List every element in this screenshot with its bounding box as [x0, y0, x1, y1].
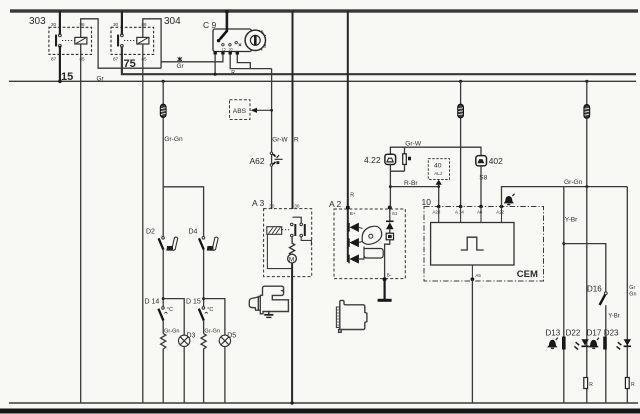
lamp D5 [219, 333, 236, 347]
relay 303 [29, 16, 92, 62]
svg-text:A 2: A 2 [329, 199, 342, 209]
wire branch to lamp D3 [163, 299, 184, 336]
node: D3 lamp branch [162, 297, 165, 300]
relay 303 coil [75, 37, 87, 44]
svg-text:303: 303 [29, 16, 46, 27]
svg-text:Gr: Gr [177, 63, 185, 70]
wire A22 up and Gr-Gn run to right [502, 187, 628, 207]
wire D3 to ground bus [183, 347, 185, 404]
resistor B (parallel with 422) [403, 147, 411, 171]
wire CEM A5 to ground bus [471, 279, 473, 403]
svg-text:402: 402 [489, 156, 503, 166]
seat icon D4 [207, 237, 218, 250]
svg-text:30: 30 [269, 204, 275, 209]
svg-text:D 14: D 14 [145, 299, 160, 306]
svg-text:D22: D22 [566, 328, 581, 337]
svg-text:M: M [289, 256, 294, 263]
C9 contact studs [222, 41, 242, 46]
svg-text:15: 15 [222, 47, 226, 51]
node: Gr-Gn wire on bus 15 [162, 80, 165, 83]
bus 30 (top power rail) [10, 9, 638, 12]
node: A2 B- pin [383, 277, 387, 281]
wire from bus 15 to CEM A14 [460, 81, 462, 206]
ignition switch C9 [203, 20, 252, 52]
wire C9 pin1 to bus 75 [214, 55, 216, 75]
wire mark W on C9 pin2 net [178, 57, 183, 62]
wire branch to D16 [564, 244, 606, 292]
switch D4 (heated seat) [189, 229, 205, 250]
resistor (below D15) [201, 334, 206, 404]
svg-text:D3: D3 [187, 333, 196, 340]
svg-text:30: 30 [229, 47, 233, 51]
node: right fuse wire on bus 15 [585, 80, 588, 83]
arrow to ABS (from Gr-W wire) [251, 108, 273, 113]
A2 stator diodes (3x) [349, 223, 359, 263]
alternator A2 [329, 199, 405, 279]
thermal switch D14 [145, 299, 173, 321]
svg-text:A28: A28 [433, 210, 441, 215]
svg-text:A6: A6 [477, 210, 483, 215]
bottom border bar [0, 409, 640, 414]
relay module A3 [252, 198, 312, 277]
svg-text:D16: D16 [587, 285, 602, 294]
wire D23 column (x=627.3) [626, 187, 628, 403]
fuse (middle, A14 wire) [458, 104, 464, 118]
svg-text:D2: D2 [146, 229, 155, 236]
node: D5 lamp branch [202, 297, 205, 300]
wire branch to lamp D5 [204, 299, 225, 336]
resistor R (D22 column) [584, 378, 594, 389]
wire D4 to D15 junction [203, 250, 205, 307]
wire branch to D4 [163, 187, 203, 236]
node: A2 pin 61 [388, 206, 392, 210]
svg-text:°C: °C [167, 307, 173, 313]
svg-text:Gr: Gr [629, 285, 635, 291]
starter ground [264, 312, 273, 318]
svg-text:D4: D4 [189, 229, 198, 236]
wire Gr-W / R down to A62 and A3 (x=271.6) [271, 69, 273, 209]
svg-text:D23: D23 [604, 328, 619, 337]
CEM inner block [431, 223, 514, 266]
svg-text:40: 40 [434, 163, 442, 170]
wire D13 column (x=563.8) [563, 187, 565, 403]
A2 B- wire [385, 240, 390, 279]
svg-text:R: R [631, 382, 635, 388]
svg-text:304: 304 [164, 16, 181, 27]
unit 40 box [428, 159, 449, 180]
chime D17 [589, 337, 607, 350]
A3 resistor [290, 237, 295, 255]
svg-text:A62: A62 [250, 156, 265, 166]
wire D14 to resistor [162, 321, 164, 334]
relay 303 pin 86 loop wire to C9 net [81, 19, 161, 68]
bus 75 [122, 46, 636, 74]
svg-text:15: 15 [61, 71, 73, 83]
connector 422 [364, 154, 396, 165]
LED D22 [574, 339, 588, 349]
C9 key cylinder [245, 30, 266, 50]
relay 304 pin 86 loop wire [143, 19, 161, 68]
svg-text:Gr-W: Gr-W [272, 136, 288, 143]
svg-text:Y-Br: Y-Br [608, 314, 619, 320]
connector 402 [476, 156, 503, 166]
ABS control unit box [230, 100, 251, 120]
switch D16 [587, 285, 607, 306]
wiper/heater motor outline (below A2) [336, 300, 367, 332]
relay 304 pin 30 wire (from bus 30) [121, 11, 123, 35]
node: C9 pin1 on bus 75 [214, 73, 217, 76]
wire right column from bus 15 through fuse [586, 81, 588, 186]
wire C9 pin3 (R tap) [230, 55, 271, 69]
svg-text:B-: B- [387, 273, 392, 278]
fuse (right) [584, 105, 590, 119]
relay 304 contact [117, 34, 123, 47]
CEM pin A28 [437, 205, 441, 209]
CEM pin A5 [471, 265, 473, 279]
C9 supply wire from bus 30 [226, 11, 229, 31]
node: R-Br junction at 422 column [389, 185, 392, 188]
A3 branch to second contact [293, 217, 302, 223]
ground bus (bottom thin) [9, 402, 638, 404]
svg-text:°C: °C [207, 307, 213, 313]
svg-text:R: R [350, 193, 354, 199]
svg-text:Gn: Gn [629, 291, 636, 297]
bus 15 [9, 80, 636, 82]
svg-text:10: 10 [422, 197, 432, 207]
relay 303 pin 30 wire (from bus 30) [59, 11, 61, 35]
svg-text:D 15: D 15 [186, 299, 201, 306]
A3 coil (hatched) [267, 227, 282, 235]
node: A3 wire on ground bus [290, 401, 293, 404]
node: A2 pin B+ [346, 206, 350, 210]
svg-text:A5: A5 [475, 273, 481, 278]
svg-text:61: 61 [392, 211, 398, 216]
wire C9 pin4 joining pin3 run [237, 55, 250, 69]
svg-text:2: 2 [262, 31, 264, 35]
arrow into unit 40 [436, 180, 442, 185]
pulse symbol [461, 237, 484, 250]
svg-text:D5: D5 [227, 333, 236, 340]
svg-text:30: 30 [294, 204, 300, 209]
A3 contact right [300, 223, 306, 237]
relay 304 coil [137, 37, 149, 44]
fuse (left, on Gr-Gn wire) [160, 104, 166, 117]
ground (A2 B-) [378, 279, 392, 300]
svg-text:30: 30 [113, 22, 119, 27]
CEM pin stubs [439, 207, 502, 223]
svg-text:A 14: A 14 [455, 210, 464, 215]
A3 contact left [291, 223, 297, 237]
relay 304 coil link (dotted) [124, 40, 137, 42]
wire D16 to D17 [605, 305, 607, 403]
relay 303 pin 85 wire (long, to ground bus) [80, 44, 82, 403]
A3 coil-contact link (dotted) [282, 229, 290, 231]
wire Gr-W from 422 to 402 [390, 147, 481, 155]
connector A62 [250, 152, 283, 166]
wire R thick from bus 30 to A2 B+ [347, 11, 349, 262]
wire 402 to CEM A6 [480, 166, 482, 207]
C9 key lever [217, 31, 227, 43]
A3 coil bottom wire to motor net [267, 234, 292, 268]
svg-text:4.22: 4.22 [364, 155, 381, 165]
svg-text:Gr-Gn: Gr-Gn [564, 179, 583, 186]
wire R-Br to CEM A28 / 40 arrow [390, 185, 438, 207]
C9 pins (terminals) [214, 52, 240, 55]
node: Gr-Gn junction right [585, 185, 588, 188]
wire 422 bottom / parallel join [390, 165, 404, 208]
starter motor outline (below A3) [249, 286, 288, 314]
CEM pin A6 [479, 205, 483, 209]
wire D5 to ground bus [224, 347, 226, 404]
A3 motor M [288, 254, 297, 263]
svg-text:87: 87 [51, 57, 57, 62]
node: D16 branch [562, 242, 565, 245]
svg-text:R: R [589, 382, 593, 388]
svg-text:Gr: Gr [97, 76, 105, 83]
wire D15 to resistor [203, 321, 205, 334]
svg-text:D13: D13 [546, 328, 561, 337]
A2 61-branch diode [386, 210, 394, 234]
A3 right contact wire to box edge [301, 237, 311, 246]
svg-text:B+: B+ [350, 211, 356, 216]
relay 303 contact [55, 34, 61, 47]
CEM pin A22 [500, 205, 504, 209]
svg-text:Gr-Gn: Gr-Gn [204, 328, 220, 334]
svg-text:87: 87 [113, 57, 119, 62]
svg-text:ABS: ABS [233, 108, 247, 115]
svg-text:A 3: A 3 [252, 198, 265, 208]
svg-text:3: 3 [264, 45, 266, 49]
wire Gr-Gn column (x=163.2) from bus 15 to D2 [162, 81, 164, 236]
svg-text:Y-Br: Y-Br [565, 216, 578, 223]
svg-text:R: R [231, 70, 235, 76]
svg-text:D17: D17 [587, 328, 602, 337]
A3 motor wire to ground bus (thick) [291, 263, 293, 403]
wire D22 column continues from fuse [586, 187, 588, 403]
A2 regulator symbol [359, 226, 384, 259]
svg-text:R: R [294, 136, 299, 143]
svg-text:CEM: CEM [517, 269, 538, 280]
node: C9 on bus 30 [225, 10, 229, 14]
thermal switch D15 [186, 299, 213, 321]
svg-text:75: 75 [124, 58, 136, 70]
seat icon D2 [167, 237, 178, 250]
buzzer icon (at A22) [505, 194, 515, 205]
CEM pin A14 [459, 205, 463, 209]
svg-text:Gr-Gn: Gr-Gn [164, 328, 180, 334]
relay 304 pin 85 wire (long, to ground bus) [142, 44, 144, 403]
relay 303 pin 87 wire to bus 15 [59, 46, 61, 81]
svg-text:ALJ: ALJ [434, 171, 442, 176]
node: A14 fuse wire on bus 15 [459, 80, 462, 83]
wire D2 to D14 junction [162, 250, 164, 307]
svg-text:Gr-Gn: Gr-Gn [164, 136, 183, 143]
resistor (below D14) [161, 334, 166, 404]
relay 304 [111, 16, 181, 62]
svg-text:A22: A22 [496, 210, 504, 215]
LED D23 [617, 339, 631, 349]
node: 303-87 on bus 15 [58, 80, 62, 84]
resistor R (D23 column) [625, 378, 635, 389]
wire R thick from bus 30 down to A3 pin 30 (x=292.5) [292, 11, 294, 209]
svg-text:30: 30 [51, 22, 57, 27]
chime D13 [548, 337, 566, 350]
A2 field box [386, 233, 393, 240]
relay 303 coil link (dotted) [62, 40, 75, 42]
central electronic module CEM [422, 197, 544, 281]
lamp D3 [179, 333, 196, 347]
switch D2 (heated seat) [146, 229, 164, 250]
wire C9 pin2 (W/Gr net to relay coils) [161, 55, 223, 62]
